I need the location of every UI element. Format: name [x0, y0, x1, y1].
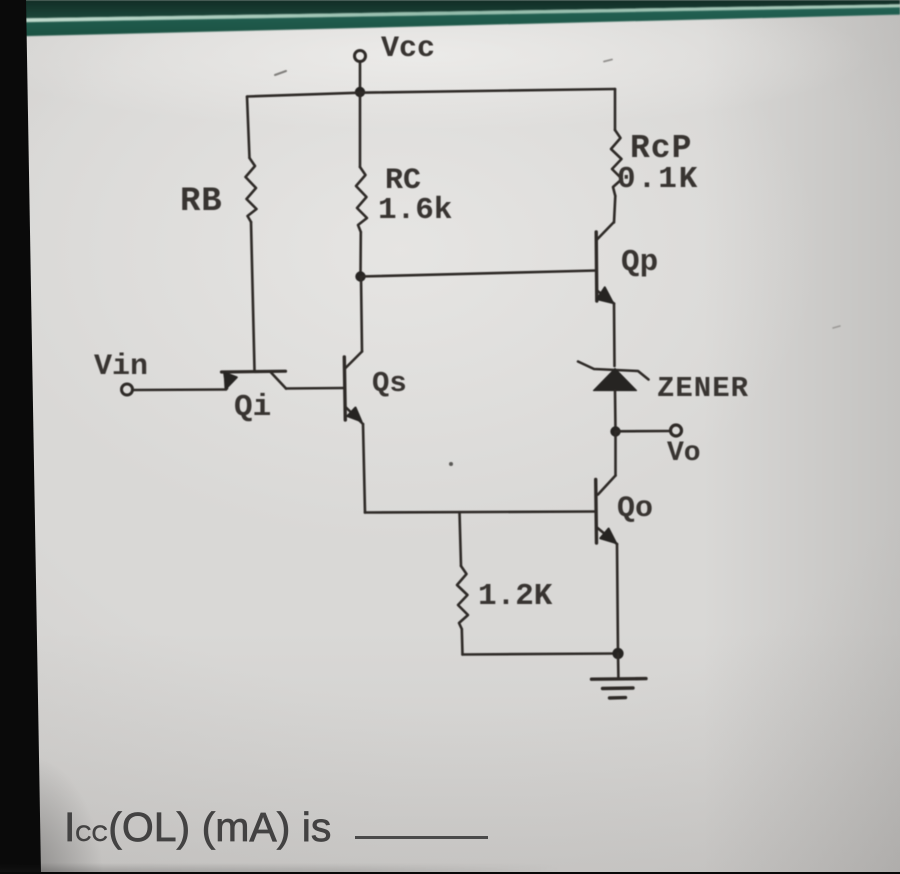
node RC-Qs-Qp junction dot [355, 271, 365, 281]
wire Qs collector up to node [361, 277, 362, 352]
svg-text:ZENER: ZENER [657, 372, 749, 405]
wire RC bottom to node [359, 232, 362, 277]
resistor 1.2K [457, 566, 468, 629]
zener diode ZENER cathode bar [578, 362, 649, 380]
svg-text:1.2K: 1.2K [478, 579, 553, 614]
wire zener to Vo node [614, 391, 617, 432]
svg-text:Vo: Vo [667, 438, 701, 469]
svg-text:Qp: Qp [621, 245, 658, 280]
answer blank underline [355, 836, 488, 839]
svg-text:RB: RB [180, 183, 222, 221]
resistor RB [246, 158, 257, 222]
wire Vo node to Qo collector [614, 432, 617, 476]
wire RB branch drop [247, 97, 250, 159]
ground [592, 654, 647, 699]
Vcc terminal [355, 51, 366, 62]
node Vo junction dot [610, 426, 620, 436]
resistor RC [356, 167, 367, 232]
wire bottom rail Qs emitter to Qo base [365, 512, 596, 513]
wire node to Qp base [361, 271, 597, 277]
wire 1.2K top lead [460, 512, 462, 566]
wire RcP to Qp collector [614, 196, 615, 223]
wire 1.2K bottom lead [460, 629, 463, 655]
wire RB to Q1 base [251, 222, 255, 370]
wire Vo tap [616, 430, 670, 433]
node ground junction dot [612, 648, 623, 659]
svg-text:Vcc: Vcc [381, 32, 435, 66]
wire Qo emitter down [617, 544, 618, 654]
wire RC branch top [359, 92, 362, 167]
wire Vcc stem [359, 62, 362, 92]
svg-text:0.1K: 0.1K [617, 162, 699, 197]
Vo terminal [671, 425, 682, 436]
svg-text:Vin: Vin [94, 350, 148, 384]
svg-text:Qo: Qo [617, 492, 653, 526]
wire Qp emitter to zener [613, 304, 616, 367]
Vin terminal [122, 384, 133, 395]
transistor Q1 [222, 371, 287, 389]
wire Q1 collector to Qs base [286, 387, 344, 390]
wire top rail [247, 89, 615, 97]
node Vcc junction dot [355, 87, 365, 97]
svg-text:Qi: Qi [234, 390, 271, 425]
transistor Qs [344, 352, 363, 425]
svg-text:Qs: Qs [372, 367, 407, 400]
transistor Qo [596, 476, 617, 545]
transistor Qp [596, 223, 614, 304]
wire bottom return to ground node [463, 654, 618, 655]
zener diode ZENER anode triangle [594, 369, 637, 391]
svg-text:1.6k: 1.6k [378, 193, 452, 228]
wire Vin to Q1 emitter [133, 388, 226, 391]
wire Qs emitter down [363, 424, 365, 513]
resistor RcP [611, 130, 622, 196]
question text Icc(OL) (mA) is [64, 804, 331, 851]
wire RcP top lead [614, 89, 617, 130]
